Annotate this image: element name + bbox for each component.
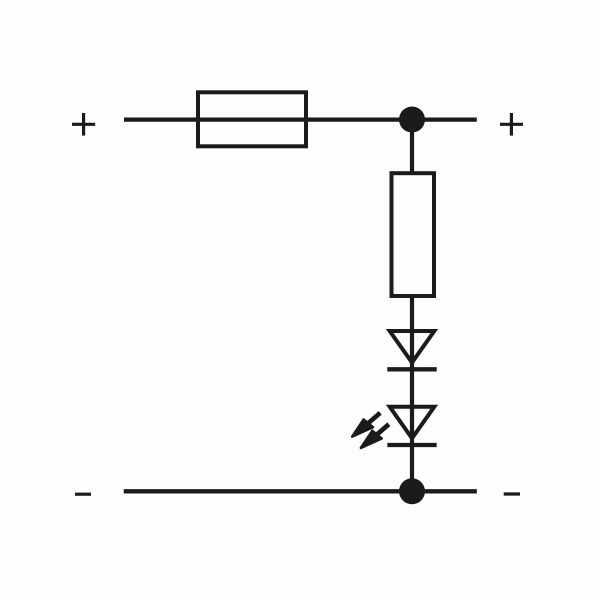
- junction node bottom: [399, 478, 425, 504]
- node + terminal plus left: [72, 113, 95, 136]
- fuse F1: [198, 92, 306, 146]
- wire vertical branch: [410, 120, 414, 492]
- diode V1: [387, 331, 436, 369]
- LED emission arrow 1: [352, 413, 380, 437]
- node + terminal plus right: [500, 113, 523, 136]
- LED emission arrow 2: [361, 424, 389, 448]
- resistor R1: [392, 173, 435, 296]
- wire bottom rail: [124, 489, 477, 493]
- wire top rail: [124, 117, 477, 121]
- node - terminal minus right: [504, 492, 520, 495]
- LED V2: [387, 407, 436, 445]
- junction node top: [399, 107, 425, 133]
- node - terminal minus left: [75, 493, 91, 496]
